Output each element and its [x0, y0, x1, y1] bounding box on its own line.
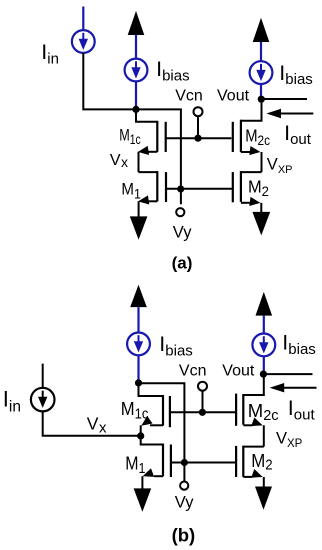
supply arrow VDD left (a): [128, 11, 145, 35]
wire: Vout output line (a): [261, 98, 307, 100]
wire: Vout output line (b): [263, 373, 312, 375]
wire: rail node B to center drop, down to Vy (b): [139, 383, 185, 481]
supply arrow VDD right (a): [253, 18, 270, 42]
wire: Iin to Vx node (b): [43, 411, 141, 436]
svg-text:Vx: Vx: [110, 152, 128, 170]
ground arrow left (b): [134, 488, 152, 511]
transistor M1c (b): [139, 383, 164, 396]
terminal Vcn (a): [197, 116, 199, 136]
wire: Iin top stub (a): [82, 7, 84, 31]
ground arrow right (b): [255, 487, 272, 510]
terminal Vy (a): [176, 208, 184, 216]
transistor M1 (a): [139, 171, 158, 173]
current source Ibias1 (a): [125, 59, 148, 82]
node Vout junction dot (b): [260, 371, 267, 378]
wire: Iin top stub (b): [42, 364, 44, 388]
cascode gate row (a): [166, 137, 232, 139]
wire: Ibias1 to node B (b): [137, 355, 139, 380]
ground arrow right (a): [252, 212, 270, 236]
svg-text:Vout: Vout: [222, 362, 255, 379]
terminal Vy (b): [180, 482, 188, 490]
wire: Ibias2 to Vout node (a): [260, 84, 262, 99]
wire: Iin down + left rail to node A (a): [83, 53, 136, 110]
wire: supply to Ibias1 (b): [137, 307, 139, 333]
transistor M2 (b): [243, 446, 263, 448]
M1/M2 gate row (b): [171, 462, 236, 464]
current source Ibias1 (b): [127, 333, 150, 356]
transistor M1c (a): [136, 110, 157, 122]
svg-text:Vcn: Vcn: [179, 362, 207, 379]
svg-text:Vcn: Vcn: [175, 88, 203, 105]
supply arrow VDD left (b): [130, 285, 147, 307]
transistor M1 (b): [141, 436, 163, 445]
current source Ibias2 (a): [250, 61, 273, 84]
svg-text:Vy: Vy: [175, 494, 194, 512]
node Vout junction dot (a): [258, 96, 265, 103]
wire: Ibias2 to Vout node (b): [263, 356, 265, 374]
M1/M2 gate row (a): [166, 188, 233, 190]
node Vx junction dot (b): [137, 432, 144, 439]
current source Ibias2 (b): [252, 334, 275, 357]
current source Iin (b): [31, 388, 55, 412]
transistor M2 (a): [241, 171, 262, 173]
wire: Ibias1 to node A (a): [135, 81, 137, 107]
node Vy junction dot (b): [181, 459, 188, 466]
node B junction dot (b): [135, 379, 142, 386]
current source Iin (a): [72, 30, 95, 53]
wire: Iout input line with arrow (a): [278, 113, 313, 115]
node Vcn junction dot (a): [194, 135, 201, 142]
supply arrow VDD right (b): [256, 292, 273, 316]
node A junction dot (a): [132, 106, 139, 113]
transistor M2c (b): [243, 374, 263, 395]
node Vcn junction dot (b): [199, 409, 206, 416]
wire: supply to Ibias1 (a): [135, 35, 137, 59]
wire: Iout input line with arrow (b): [281, 387, 317, 389]
wire: supply to Ibias2 (a): [260, 42, 262, 61]
svg-text:Vy: Vy: [173, 224, 192, 242]
svg-text:Vout: Vout: [217, 88, 250, 105]
svg-text:(b): (b): [172, 524, 196, 545]
cascode gate row (b): [170, 411, 236, 413]
wire: rail node A to center drop, down to Vy (a): [136, 109, 181, 204]
node Vy junction dot (a): [177, 185, 184, 192]
ground arrow left (a): [130, 216, 148, 239]
wire: supply to Ibias2 (b): [263, 316, 265, 334]
terminal Vcn (b): [202, 391, 204, 410]
transistor M2c (a): [241, 99, 262, 121]
svg-text:(a): (a): [172, 254, 193, 273]
